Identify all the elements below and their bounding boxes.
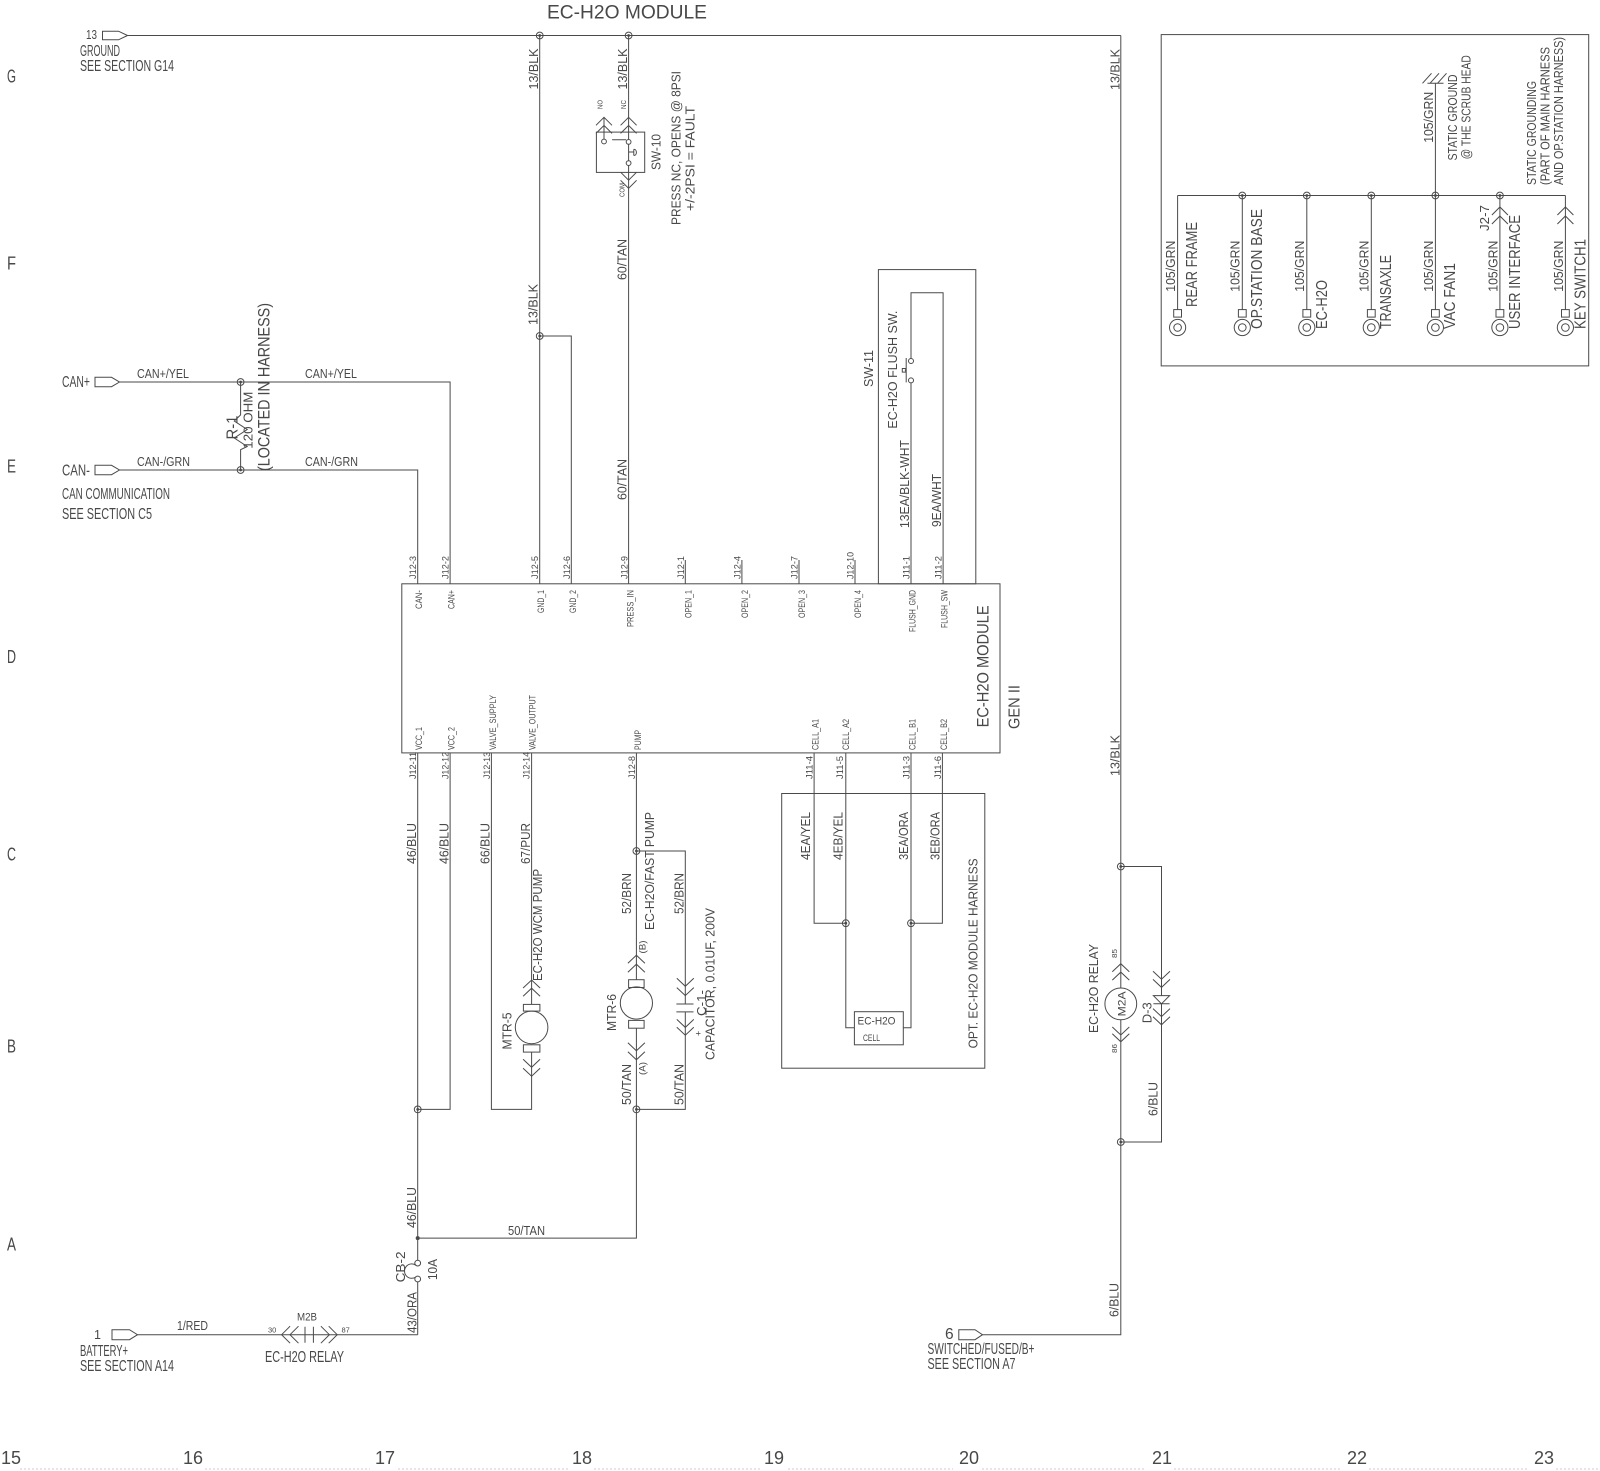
svg-text:66/BLU: 66/BLU: [479, 823, 493, 864]
svg-text:CAN+: CAN+: [447, 590, 457, 609]
svg-text:13EA/BLK-WHT: 13EA/BLK-WHT: [898, 440, 912, 528]
svg-text:21: 21: [1152, 1448, 1172, 1468]
svg-text:VALVE_OUTPUT: VALVE_OUTPUT: [528, 695, 538, 750]
wire VALVE_OUTPUT down: [531, 753, 533, 1005]
svg-text:EC-H2O FLUSH SW.: EC-H2O FLUSH SW.: [886, 311, 900, 429]
SW-10 COM contact: [626, 161, 631, 166]
svg-text:MTR-6: MTR-6: [605, 994, 619, 1031]
svg-text:A: A: [7, 1235, 16, 1255]
svg-text:E: E: [7, 457, 16, 477]
svg-text:6/BLU: 6/BLU: [1146, 1082, 1160, 1116]
connector chevrons below MTR-5: [523, 1059, 540, 1076]
connector chevrons below C-1: [677, 1019, 694, 1035]
wire below breaker: [417, 1282, 419, 1335]
svg-text:CELL: CELL: [863, 1033, 880, 1043]
wire relay coil lower: [983, 1020, 1121, 1335]
svg-text:SEE SECTION A14: SEE SECTION A14: [80, 1358, 174, 1375]
ground terminal OP.STATION BASE: [1229, 192, 1266, 336]
svg-text:30: 30: [268, 1326, 276, 1335]
connector chevrons J2-7: [1492, 207, 1508, 224]
svg-text:1/RED: 1/RED: [177, 1319, 208, 1333]
motor MTR-5: [501, 980, 548, 1076]
flush switch SW-11 box: [878, 270, 975, 584]
wire PUMP down: [635, 753, 637, 980]
svg-text:EC-H2O: EC-H2O: [1314, 280, 1331, 329]
svg-text:17: 17: [375, 1448, 395, 1468]
SW-10 NO contact: [602, 139, 607, 144]
ground terminal VAC FAN1 with static ground riser: [1422, 55, 1474, 335]
svg-text:OPEN_1: OPEN_1: [683, 590, 693, 618]
SW-10 actuator head: [634, 149, 637, 155]
svg-text:52/BRN: 52/BRN: [672, 873, 686, 914]
svg-text:50/TAN: 50/TAN: [508, 1224, 545, 1238]
connector chevrons above MTR-5: [523, 980, 540, 996]
svg-text:EC-H2O/FAST PUMP: EC-H2O/FAST PUMP: [643, 812, 657, 930]
svg-text:SEE SECTION A7: SEE SECTION A7: [928, 1356, 1016, 1373]
svg-text:F: F: [7, 254, 16, 274]
svg-text:(A): (A): [638, 1062, 648, 1075]
svg-text:TRANSAXLE: TRANSAXLE: [1378, 255, 1395, 329]
svg-text:CB-2: CB-2: [394, 1251, 408, 1282]
border tick marks bottom: [20, 1468, 1600, 1470]
EC-H2O module body: [402, 584, 1000, 753]
connector chevrons above diode: [1153, 971, 1170, 987]
svg-text:+/-2PSI = FAULT: +/-2PSI = FAULT: [684, 106, 698, 211]
svg-text:J12-2: J12-2: [441, 556, 451, 579]
connector chevrons above C-1: [677, 978, 694, 995]
svg-text:(PART OF MAIN HARNESS: (PART OF MAIN HARNESS: [1539, 47, 1553, 185]
svg-text:67/PUR: 67/PUR: [519, 823, 533, 864]
svg-text:13/BLK: 13/BLK: [1109, 48, 1123, 90]
svg-text:J12-9: J12-9: [619, 556, 629, 579]
svg-text:J12-1: J12-1: [676, 556, 686, 579]
svg-text:EC-H2O: EC-H2O: [858, 1016, 896, 1028]
svg-text:C: C: [7, 845, 16, 865]
svg-text:CELL_B1: CELL_B1: [908, 719, 918, 750]
svg-text:19: 19: [764, 1448, 784, 1468]
pressure switch SW-10: [596, 36, 698, 584]
svg-text:GEN II: GEN II: [1007, 685, 1024, 729]
wire CELL_B1: [903, 753, 911, 1028]
svg-text:43/ORA: 43/ORA: [406, 1291, 420, 1333]
svg-text:VAC FAN1: VAC FAN1: [1442, 263, 1459, 329]
svg-text:D: D: [7, 647, 16, 667]
wire VCC_1 rail down: [417, 753, 419, 1260]
svg-text:46/BLU: 46/BLU: [437, 823, 451, 864]
capacitor C-1: [676, 1004, 693, 1012]
chevrons right: [321, 1326, 337, 1343]
node junction cell B: [908, 920, 915, 927]
opt module harness box: [782, 794, 985, 1069]
svg-text:87: 87: [342, 1326, 350, 1335]
svg-text:CELL_B2: CELL_B2: [939, 719, 949, 750]
ground terminal KEY SWITCH1: [1552, 196, 1590, 336]
svg-text:50/TAN: 50/TAN: [672, 1064, 686, 1105]
svg-text:OPEN_4: OPEN_4: [853, 590, 863, 618]
svg-text:16: 16: [183, 1448, 203, 1468]
svg-text:SW-11: SW-11: [862, 350, 876, 387]
svg-text:J12-6: J12-6: [562, 556, 572, 579]
svg-text:J12-3: J12-3: [408, 556, 418, 579]
svg-text:MTR-5: MTR-5: [501, 1012, 515, 1049]
svg-text:105/GRN: 105/GRN: [1164, 241, 1178, 292]
svg-text:OPEN_2: OPEN_2: [740, 590, 750, 618]
svg-text:22: 22: [1347, 1448, 1367, 1468]
motor MTR-6: [605, 980, 653, 1031]
svg-text:J11-3: J11-3: [902, 756, 912, 779]
node junction MTR-6 / capacitor return: [633, 1106, 640, 1113]
svg-text:+: +: [694, 1031, 704, 1036]
wire CAN-/GRN: [120, 470, 418, 584]
svg-text:23: 23: [1534, 1448, 1554, 1468]
wire relay coil upper: [1120, 867, 1122, 989]
svg-text:PRESS NC, OPENS @ 8PSI: PRESS NC, OPENS @ 8PSI: [670, 71, 684, 225]
wire NC stub into SW-10: [628, 36, 630, 140]
svg-text:G: G: [7, 67, 16, 87]
svg-text:EC-H2O MODULE: EC-H2O MODULE: [547, 2, 707, 24]
svg-text:13/BLK: 13/BLK: [1109, 734, 1123, 776]
relay coil M2A: [1105, 988, 1137, 1020]
svg-text:STATIC GROUNDING: STATIC GROUNDING: [1525, 81, 1539, 185]
wire diode branch: [1121, 867, 1162, 1143]
svg-text:18: 18: [572, 1448, 592, 1468]
svg-text:3EA/ORA: 3EA/ORA: [897, 811, 911, 860]
svg-text:13: 13: [86, 28, 97, 42]
svg-text:CAN+: CAN+: [62, 374, 90, 391]
wire CELL_A1: [814, 753, 846, 923]
svg-text:13/BLK: 13/BLK: [616, 48, 630, 90]
svg-text:@ THE SCRUB HEAD: @ THE SCRUB HEAD: [1460, 55, 1474, 159]
contact bars: [305, 1327, 313, 1343]
pin J12-1 stub: [684, 560, 686, 584]
svg-text:(LOCATED IN HARNESS): (LOCATED IN HARNESS): [256, 303, 274, 471]
static grounding box: [1161, 35, 1589, 366]
pin J12-4 stub: [741, 560, 743, 584]
svg-text:VCC_1: VCC_1: [414, 727, 424, 750]
svg-text:46/BLU: 46/BLU: [405, 1187, 419, 1228]
svg-text:J12-11: J12-11: [408, 752, 418, 779]
svg-text:J11-1: J11-1: [902, 556, 912, 579]
svg-text:105/GRN: 105/GRN: [1358, 241, 1372, 292]
svg-text:CAN-: CAN-: [414, 590, 424, 609]
wire static ground riser: [1434, 83, 1436, 195]
svg-text:USER INTERFACE: USER INTERFACE: [1507, 215, 1524, 329]
chevrons left: [282, 1326, 299, 1343]
svg-text:EC-H2O RELAY: EC-H2O RELAY: [1087, 943, 1101, 1033]
svg-text:PRESS_IN: PRESS_IN: [625, 590, 635, 627]
svg-text:J12-13: J12-13: [482, 752, 492, 779]
wire capacitor branch: [636, 851, 685, 1109]
svg-text:105/GRN: 105/GRN: [1552, 241, 1566, 292]
connector chevrons below coil: [1112, 1027, 1129, 1042]
svg-text:50/TAN: 50/TAN: [620, 1064, 634, 1105]
svg-text:KEY SWITCH1: KEY SWITCH1: [1572, 239, 1589, 329]
wire VCC_2 loop: [418, 753, 450, 1110]
wire CELL_B2: [911, 753, 942, 923]
wire ground bus: [1178, 195, 1566, 197]
svg-text:GND_1: GND_1: [536, 590, 546, 613]
node junction VCC rail: [414, 1106, 421, 1113]
EC-H2O CELL box: [854, 1012, 903, 1045]
svg-text:CAN-/GRN: CAN-/GRN: [305, 455, 358, 469]
svg-text:J11-5: J11-5: [835, 756, 845, 779]
svg-text:J12-12: J12-12: [441, 752, 451, 779]
ground terminal TRANSAXLE: [1358, 192, 1395, 336]
svg-text:OP.STATION BASE: OP.STATION BASE: [1249, 209, 1266, 329]
svg-text:REAR FRAME: REAR FRAME: [1184, 222, 1201, 307]
svg-text:OPT. EC-H2O MODULE HARNESS: OPT. EC-H2O MODULE HARNESS: [967, 858, 981, 1048]
wire COM down: [628, 166, 630, 584]
ground terminal USER INTERFACE: [1478, 192, 1524, 336]
svg-text:CELL_A2: CELL_A2: [841, 719, 851, 750]
resistor R-1 120 OHM: [234, 382, 247, 470]
svg-text:OPEN_3: OPEN_3: [797, 590, 807, 618]
svg-text:6/BLU: 6/BLU: [1107, 1283, 1121, 1317]
wire 13/BLK right vertical: [1120, 36, 1122, 867]
ground terminal REAR FRAME: [1164, 196, 1201, 336]
ground chassis symbol: [1423, 73, 1447, 83]
ground terminal EC-H2O: [1293, 192, 1331, 336]
node junction cell A: [842, 920, 849, 927]
svg-text:PUMP: PUMP: [633, 730, 643, 750]
svg-text:AND OP.STATION HARNESS): AND OP.STATION HARNESS): [1552, 37, 1566, 185]
svg-text:M2B: M2B: [297, 1312, 317, 1324]
svg-text:105/GRN: 105/GRN: [1293, 241, 1307, 292]
svg-text:FLUSH_GND: FLUSH_GND: [908, 590, 918, 632]
svg-text:J11-4: J11-4: [805, 756, 815, 779]
svg-text:COM: COM: [618, 183, 627, 197]
svg-text:J12-8: J12-8: [627, 756, 637, 779]
wire CAN+/YEL: [120, 382, 451, 584]
svg-text:GND_2: GND_2: [568, 590, 578, 613]
svg-text:85: 85: [1110, 949, 1119, 958]
svg-text:J12-14: J12-14: [522, 752, 532, 779]
wire NO stub: [603, 117, 605, 139]
wire GND_1 to module J12-5: [539, 336, 541, 584]
svg-text:EC-H2O RELAY: EC-H2O RELAY: [265, 1349, 344, 1366]
svg-text:3EB/ORA: 3EB/ORA: [929, 811, 943, 860]
connector chevrons NO: [596, 117, 612, 133]
svg-text:EC-H2O MODULE: EC-H2O MODULE: [975, 605, 993, 727]
svg-text:CAN-/GRN: CAN-/GRN: [137, 455, 190, 469]
svg-text:(B): (B): [638, 941, 648, 954]
push button bar and cap: [905, 358, 906, 382]
svg-text:B: B: [7, 1037, 16, 1057]
svg-text:J12-10: J12-10: [846, 552, 856, 579]
svg-text:4EB/YEL: 4EB/YEL: [832, 812, 846, 860]
svg-text:J12-5: J12-5: [530, 556, 540, 579]
svg-text:VALVE_SUPPLY: VALVE_SUPPLY: [488, 695, 498, 750]
svg-text:SEE SECTION C5: SEE SECTION C5: [62, 506, 152, 523]
pin J12-7 stub: [798, 560, 800, 584]
node junction CAN- / R-1: [237, 467, 244, 474]
svg-text:CAN+/YEL: CAN+/YEL: [137, 367, 189, 381]
svg-text:R-1: R-1: [225, 416, 242, 440]
svg-text:86: 86: [1110, 1044, 1119, 1053]
svg-text:15: 15: [1, 1448, 21, 1468]
svg-text:CAN+/YEL: CAN+/YEL: [305, 367, 357, 381]
svg-text:J11-6: J11-6: [933, 756, 943, 779]
svg-text:1: 1: [94, 1328, 101, 1342]
connector chevrons below diode: [1153, 1009, 1170, 1025]
svg-text:20: 20: [959, 1448, 979, 1468]
node junction CAN+ / R-1: [237, 379, 244, 386]
svg-text:J2-7: J2-7: [1478, 205, 1492, 231]
wire flush switch loop: [910, 383, 912, 584]
svg-text:105/GRN: 105/GRN: [1422, 92, 1436, 143]
svg-text:SW-10: SW-10: [650, 134, 664, 170]
pin J12-10 stub: [854, 560, 856, 584]
svg-text:60/TAN: 60/TAN: [616, 459, 630, 500]
node junction relay branch top: [1117, 863, 1124, 870]
svg-text:9EA/WHT: 9EA/WHT: [930, 474, 944, 527]
wire battery rail: [138, 1334, 418, 1336]
push button SW-11 contacts: [909, 359, 914, 364]
svg-text:FLUSH_SW: FLUSH_SW: [940, 590, 950, 628]
svg-text:52/BRN: 52/BRN: [620, 873, 634, 914]
svg-text:CAN-: CAN-: [62, 463, 90, 480]
connector chevrons above coil: [1112, 964, 1129, 980]
svg-text:60/TAN: 60/TAN: [616, 239, 630, 280]
node junction gnd wire A: [536, 32, 543, 39]
node junction diode return: [1117, 1139, 1124, 1146]
svg-text:J11-2: J11-2: [934, 556, 944, 579]
svg-text:4EA/YEL: 4EA/YEL: [799, 812, 813, 860]
wire VALVE_SUPPLY loop: [491, 753, 531, 1110]
svg-text:EC-H2O WCM PUMP: EC-H2O WCM PUMP: [531, 869, 545, 981]
svg-text:NC: NC: [619, 100, 628, 109]
svg-text:J12-4: J12-4: [732, 556, 742, 579]
node junction 50/TAN tap: [416, 1236, 420, 1240]
wire GND_2 jog to module J12-6: [540, 336, 572, 584]
connector chevrons below MTR-6: [628, 1043, 645, 1060]
svg-text:CELL_A1: CELL_A1: [811, 719, 821, 750]
wire top ground rail: [128, 35, 1121, 37]
svg-text:105/GRN: 105/GRN: [1422, 241, 1436, 292]
svg-text:NO: NO: [596, 100, 605, 109]
svg-text:J12-7: J12-7: [790, 556, 800, 579]
SW-10 NC contact: [626, 140, 631, 145]
wire 13/BLK left vertical upper: [539, 36, 541, 337]
svg-text:10A: 10A: [426, 1258, 440, 1280]
SW-10 body box: [596, 132, 644, 172]
node junction pump / capacitor branch: [633, 848, 640, 855]
node junction gnd wire B: [625, 32, 632, 39]
relay contact M2B: [265, 1312, 350, 1367]
svg-text:CAN COMMUNICATION: CAN COMMUNICATION: [62, 486, 170, 503]
svg-text:STATIC GROUND: STATIC GROUND: [1446, 75, 1460, 161]
svg-text:D-3: D-3: [1140, 1002, 1154, 1023]
wire CELL_A2: [846, 753, 855, 1028]
svg-text:46/BLU: 46/BLU: [405, 823, 419, 864]
svg-text:13/BLK: 13/BLK: [527, 48, 541, 90]
svg-text:SEE SECTION G14: SEE SECTION G14: [80, 58, 174, 75]
circuit breaker CB-2 10A: [394, 1251, 440, 1282]
SW-10 armature: [612, 140, 634, 161]
svg-text:105/GRN: 105/GRN: [1486, 241, 1500, 292]
svg-text:VCC_2: VCC_2: [447, 727, 457, 750]
connector chevrons NC: [621, 117, 637, 133]
svg-text:M2A: M2A: [1116, 991, 1128, 1017]
diode D-3: [1153, 996, 1169, 1004]
connector chevrons key switch: [1557, 207, 1573, 224]
connector chevrons COM: [621, 172, 637, 188]
node junction GND split: [536, 333, 543, 340]
svg-text:13/BLK: 13/BLK: [527, 283, 541, 325]
svg-text:105/GRN: 105/GRN: [1229, 241, 1243, 292]
wire MTR-6 lower: [418, 1028, 637, 1238]
svg-text:CAPACITOR, 0.01UF, 200V: CAPACITOR, 0.01UF, 200V: [704, 907, 718, 1060]
svg-text:120 OHM: 120 OHM: [242, 392, 256, 449]
connector chevrons above MTR-6: [628, 955, 645, 972]
